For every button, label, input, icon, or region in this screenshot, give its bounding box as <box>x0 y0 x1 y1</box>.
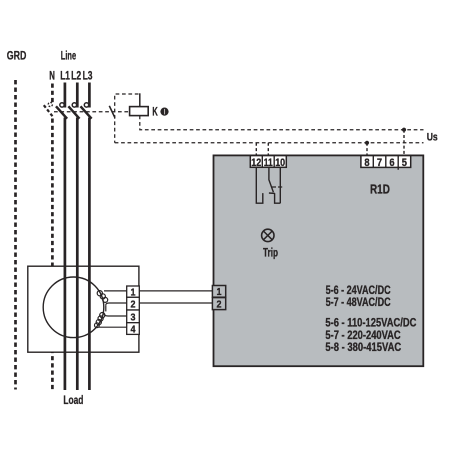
neutral conductor N upper segment (dashed wire) <box>51 84 54 103</box>
wire CT terminal 1 to relay terminal 1 <box>139 290 212 292</box>
svg-text:1: 1 <box>217 286 222 298</box>
relay contact arm tip tick <box>269 192 275 194</box>
disconnect switch contact on L3 <box>84 103 88 107</box>
contactor actuating slash on linkage <box>109 106 115 118</box>
relay contact fixed seat under terminal 12 <box>256 167 263 203</box>
contactor coil K <box>130 107 149 116</box>
svg-text:5-6 - 110-125VAC/DC: 5-6 - 110-125VAC/DC <box>325 317 416 330</box>
ground conductor GRD (dashed wire) <box>14 80 17 390</box>
dashed drop to terminal 11 <box>267 143 269 156</box>
line conductor L2 upper segment <box>76 83 79 108</box>
note marker 1 (filled circle with white 1) <box>160 108 168 116</box>
line conductor L2 lower segment <box>76 118 79 391</box>
switch mechanical linkage (dashed) <box>54 111 130 113</box>
conductors redrawn over CT (L1 L2 L3 segments) <box>65 266 90 353</box>
relay terminal 1 <box>212 286 225 299</box>
current transformer CT enclosure <box>28 266 139 352</box>
svg-text:5-7 - 48VAC/DC: 5-7 - 48VAC/DC <box>326 296 391 309</box>
svg-text:5-8 - 380-415VAC: 5-8 - 380-415VAC <box>325 341 401 354</box>
svg-text:Trip: Trip <box>263 246 278 260</box>
dashed control wire lower run to terminal 8 <box>115 142 424 144</box>
svg-text:K: K <box>152 107 158 119</box>
disconnect switch contact on L1 <box>60 103 64 107</box>
svg-text:3: 3 <box>131 311 136 323</box>
svg-text:10: 10 <box>275 157 285 169</box>
junction dot on upper run <box>402 128 406 132</box>
disconnect switch contact on L2 <box>72 103 76 107</box>
disconnect switch blade on L1 <box>56 106 67 118</box>
dashed drop to terminal 12 <box>255 143 257 156</box>
CT terminal 1 <box>127 286 140 299</box>
terminal strip 8 7 6 5 <box>361 156 411 170</box>
dashed drop from junction to terminal 5 <box>403 130 405 155</box>
svg-text:7: 7 <box>377 157 382 169</box>
svg-text:Load: Load <box>63 393 83 407</box>
svg-text:11: 11 <box>264 157 273 169</box>
CT secondary winding lower loops (terminals 3-4) <box>95 313 127 328</box>
CT terminal 2 <box>127 297 140 310</box>
svg-text:L2: L2 <box>71 68 81 82</box>
CT terminal 3 <box>127 310 140 323</box>
line conductor L3 upper segment <box>88 83 91 108</box>
relay terminal 2 <box>212 298 225 311</box>
relay R1D enclosure <box>214 155 424 366</box>
svg-text:L3: L3 <box>83 68 93 82</box>
svg-text:5: 5 <box>402 157 407 169</box>
line conductor L3 lower segment <box>88 118 91 391</box>
svg-text:Line: Line <box>61 49 77 63</box>
CT secondary winding upper loops (terminals 1-2) <box>97 291 126 312</box>
trip indicator (circle with X) <box>262 229 274 241</box>
disconnect switch contact on N (dashed circle) <box>48 102 52 106</box>
disconnect switch blade on L2 <box>68 106 79 118</box>
junction dot on lower run <box>365 141 369 145</box>
svg-text:GRD: GRD <box>7 49 27 63</box>
disconnect switch blade on L3 <box>81 106 92 118</box>
relay contact fixed seat under terminal 10 <box>275 167 281 203</box>
svg-text:6: 6 <box>389 157 394 169</box>
wire from dashed loop to coil K top <box>139 93 141 106</box>
svg-text:4: 4 <box>131 323 136 335</box>
svg-text:N: N <box>49 68 55 82</box>
svg-text:2: 2 <box>131 299 136 311</box>
dashed drop from junction to terminal 8 <box>366 143 368 155</box>
svg-text:Us: Us <box>427 131 438 143</box>
neutral conductor N lower segment (dashed wire) <box>51 119 54 391</box>
dashed control loop left of coil K <box>115 94 139 143</box>
svg-text:2: 2 <box>217 299 222 311</box>
svg-text:8: 8 <box>364 157 369 169</box>
relay contact linkage (dashed) <box>272 186 283 188</box>
CT terminal 4 <box>127 323 140 336</box>
line conductor L1 lower segment <box>64 118 67 391</box>
svg-text:5-7 - 220-240VAC: 5-7 - 220-240VAC <box>325 329 401 342</box>
svg-text:L1: L1 <box>60 68 70 82</box>
line conductor L1 upper segment <box>64 83 67 108</box>
svg-text:12: 12 <box>251 157 261 169</box>
dashed control wire from coil K bottom to terminal 5 (upper run) <box>140 116 424 130</box>
relay contact arm from terminal 11 <box>269 167 274 192</box>
terminal strip 12 11 10 <box>250 156 286 168</box>
svg-text:R1D: R1D <box>370 182 390 197</box>
CT toroid core <box>43 277 104 338</box>
disconnect switch blade on N (dashed) <box>44 105 53 117</box>
wire CT terminal 2 to relay terminal 2 <box>139 302 212 304</box>
